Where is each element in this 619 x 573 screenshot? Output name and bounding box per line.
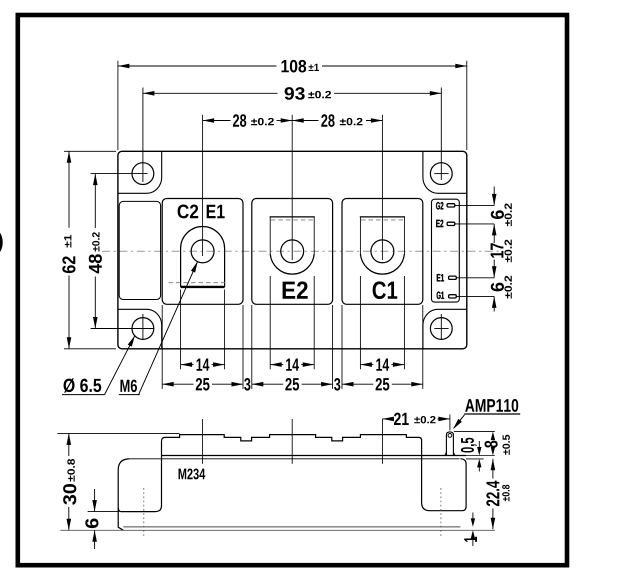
side view flange line (130, 458, 460, 460)
dimension 25 (block 2) (332, 305, 334, 389)
dimension 14 (terminal C1) (359, 276, 361, 369)
label C1 (373, 281, 398, 299)
terminal screw hole C1 (371, 240, 394, 263)
label C2 (178, 205, 199, 219)
dimension 62 +/-1 (64, 150, 116, 152)
corner boss top-right (423, 151, 467, 193)
mounting hole top-left crosshair (91, 173, 148, 175)
dimension 3 (gap 1) (251, 305, 253, 389)
dimension 6 +/-0.2 (G2-E2 pins) (493, 187, 495, 206)
mounting hole top-left (132, 163, 154, 185)
dimension 108 +/-1 (117, 61, 119, 150)
dimension 30 +/-0.8 (total height) (57, 432, 179, 434)
dimension 6 (base plate height) (88, 511, 119, 513)
dimension 17 +/-0.2 (E2-E1 pins) (493, 224, 495, 243)
side view left end outline (118, 459, 129, 531)
mounting hole bottom-left (132, 318, 154, 340)
dimension 93 +/-0.2 (143, 92, 278, 94)
mounting hole top-right crosshair (434, 173, 448, 175)
label E1 (207, 205, 225, 218)
corner boss bottom-left (118, 309, 162, 349)
label AMP110 with leader arrow (465, 399, 518, 412)
dimension 28 +/-0.2 right (381, 115, 383, 260)
screw terminal tab C1 (359, 217, 361, 254)
left inner panel (119, 201, 160, 299)
corner boss bottom-right (423, 309, 467, 349)
AMP110 control pin side view (446, 432, 453, 456)
control pin E1 (437, 274, 444, 281)
control pin E2 (436, 220, 443, 227)
terminal screw hole C2/E1 (191, 240, 214, 263)
dimension 1 (base plate protrusion) (472, 513, 474, 519)
mounting hole bottom-left crosshair (91, 328, 154, 330)
dimension 28 +/-0.2 left (202, 115, 204, 256)
terminal screw hole E2 (281, 240, 304, 263)
side view left body edge and flange step (118, 441, 161, 511)
terminal block 1 (C2/E1) (162, 199, 243, 305)
label M6 with leader to terminal thread (120, 380, 136, 392)
label dia 6.5 with leader to mounting hole (64, 378, 102, 392)
hidden edge dashes E2 (271, 219, 314, 221)
module outline (top view) (118, 151, 467, 348)
hidden edge dashes C1 (361, 219, 404, 221)
terminal block 2 (E2) (252, 199, 333, 305)
side view lid profile with terminal bumps (162, 435, 467, 511)
dimension 14 (terminal C2/E1) (180, 290, 182, 370)
base plate bottom line (60, 529, 495, 531)
control pin strip (432, 199, 460, 302)
hidden mounting hole centerline right (440, 488, 442, 537)
screw terminal tombstone C2/E1 (181, 227, 225, 287)
hidden edge dashes in block 1 (169, 282, 228, 284)
dimension 3 (gap 2) (341, 305, 343, 389)
dimension 48 +/-0.2 (94, 174, 96, 228)
mounting hole bottom-right (430, 318, 452, 340)
dimension 8 +/-0.5 (pin height) (454, 431, 495, 433)
label M234 (179, 468, 206, 479)
dimension 25 (block 1) (161, 305, 163, 389)
screw terminal tab E2 (269, 217, 271, 254)
dimension 22.4 +/-0.8 (body height) (492, 459, 494, 479)
horizontal centerline (dash-dot) (102, 250, 503, 252)
terminal block 3 (C1) (342, 199, 423, 305)
terminal center tick 3 (381, 419, 383, 464)
base plate bottom chamfer line (123, 526, 460, 528)
mounting hole top-right (430, 163, 452, 185)
corner boss top-left (118, 151, 162, 193)
dimension 25 (block 3) (422, 305, 424, 389)
cropped figure mark at left edge (0, 232, 3, 253)
dimension 14 (terminal E2) (269, 276, 271, 369)
label E2 (283, 281, 308, 298)
dimension 6 +/-0.2 (E1-G1 pins) (493, 296, 495, 311)
dimension 21 +/-0.2 (382, 418, 392, 420)
control pin G1 (437, 292, 444, 300)
hidden mounting hole centerline left (143, 488, 145, 537)
terminal center tick 1 (202, 419, 204, 464)
mounting hole bottom-right crosshair (434, 328, 448, 330)
side view lid seam line (162, 455, 467, 457)
control pin G2 (436, 202, 443, 210)
terminal center tick 2 (291, 419, 293, 464)
dimension 0,5 (pin seat step) (478, 441, 480, 448)
